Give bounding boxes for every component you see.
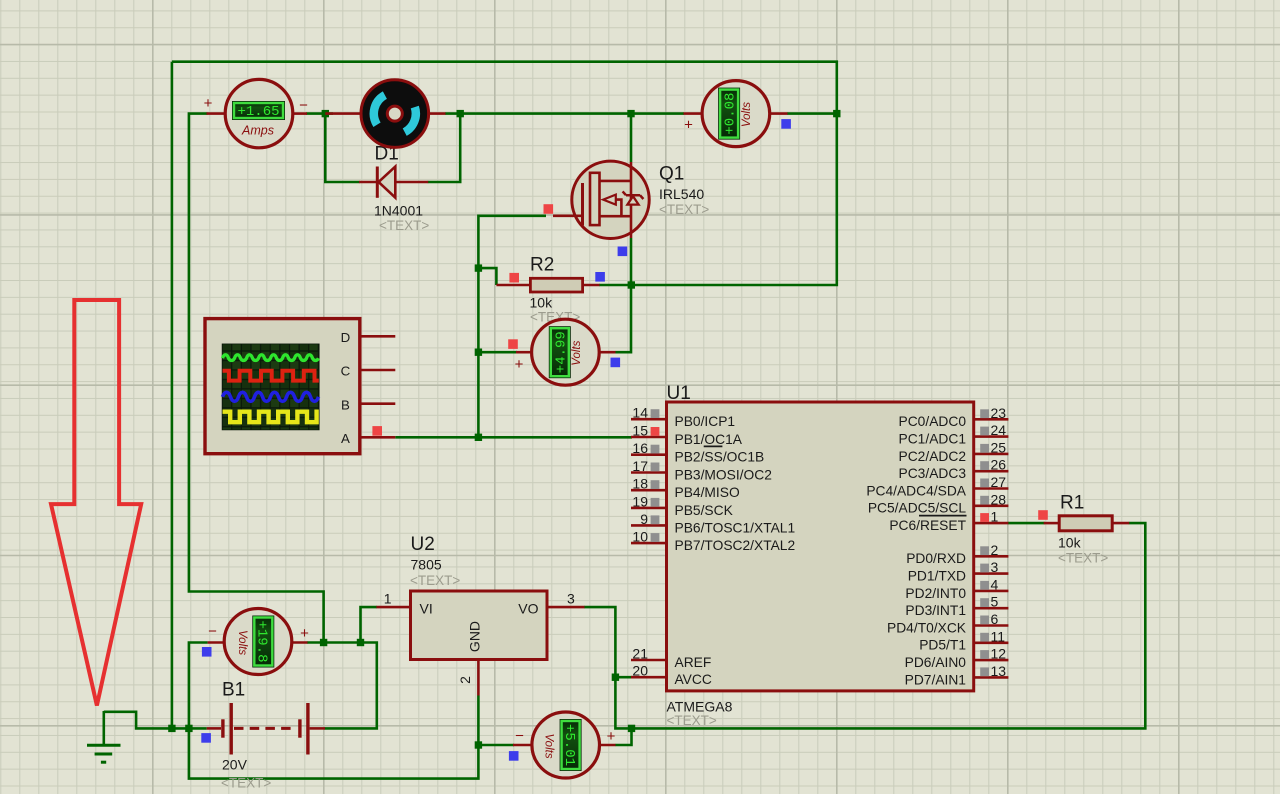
R2 left pin bbox=[496, 284, 530, 287]
U1 pin 24 state indicator bbox=[980, 427, 989, 436]
svg-text:PB4/MISO: PB4/MISO bbox=[675, 485, 740, 500]
svg-text:−: − bbox=[515, 728, 524, 745]
U1 pin 6 (PD4/T0/XCK) stub bbox=[974, 624, 1009, 627]
V5 plus pin bbox=[599, 744, 615, 747]
U1 pin 2 (PD0/RXD) stub bbox=[974, 555, 1009, 558]
svg-text:A: A bbox=[341, 431, 350, 446]
indicator Q1 gate logic state bbox=[544, 204, 554, 214]
svg-text:PB5/SCK: PB5/SCK bbox=[675, 503, 734, 518]
svg-text:+19.8: +19.8 bbox=[254, 620, 270, 662]
svg-text:+1.65: +1.65 bbox=[237, 104, 279, 120]
svg-text:R1: R1 bbox=[1060, 493, 1084, 514]
svg-text:<TEXT>: <TEXT> bbox=[221, 776, 271, 791]
wire voltmeter V5 minus stub bbox=[478, 744, 514, 747]
oscilloscope module (4 channel) bbox=[205, 319, 360, 454]
svg-text:7805: 7805 bbox=[411, 557, 442, 573]
svg-text:18: 18 bbox=[632, 476, 648, 492]
U1 pin 9 (PB6/TOSC1/XTAL1) stub bbox=[631, 524, 667, 527]
wire freewheel diode cathode branch bbox=[325, 114, 359, 182]
V2 minus pin bbox=[599, 351, 616, 354]
U1 pin 24 (PC1/ADC1) stub bbox=[974, 435, 1009, 438]
V3 minus pin bbox=[770, 112, 788, 115]
V4 minus pin bbox=[208, 641, 225, 644]
svg-text:10: 10 bbox=[632, 529, 648, 545]
U1 pin 9 state indicator bbox=[651, 515, 660, 524]
wire Q1 drain vertical upper segment bbox=[630, 114, 633, 162]
U1 pin 4 (PD2/INT0) stub bbox=[974, 590, 1009, 593]
svg-text:PD5/T1: PD5/T1 bbox=[919, 638, 966, 653]
scope channel B pin bbox=[360, 402, 396, 405]
wire U1 pin1 to R1 left bbox=[1008, 522, 1045, 525]
U2 pin 1 (VI) stub bbox=[376, 606, 410, 609]
V5 minus pin bbox=[513, 744, 532, 747]
U1 pin 18 (PB4/MISO) stub bbox=[631, 489, 667, 492]
svg-text:+: + bbox=[300, 625, 309, 642]
wire voltmeter V2 plus branch bbox=[478, 351, 517, 354]
U1 pin 15 (PB1/OC1A) stub bbox=[631, 436, 667, 439]
svg-text:5: 5 bbox=[991, 594, 999, 610]
U1 pin 13 state indicator bbox=[980, 667, 989, 676]
svg-text:10k: 10k bbox=[530, 295, 554, 311]
IC U1 ATMEGA8 body bbox=[667, 402, 974, 691]
wire ground to battery minus row bbox=[104, 712, 207, 729]
U2 pin 3 (VO) stub bbox=[547, 606, 585, 609]
wire U2 pin2 down to ground net bbox=[477, 696, 480, 746]
svg-text:+: + bbox=[684, 117, 693, 134]
U1 pin 27 state indicator bbox=[980, 479, 989, 488]
svg-text:PC4/ADC4/SDA: PC4/ADC4/SDA bbox=[866, 483, 966, 498]
svg-text:Volts: Volts bbox=[741, 102, 753, 127]
indicator scope channel A logic state bbox=[372, 426, 382, 436]
svg-text:PB6/TOSC1/XTAL1: PB6/TOSC1/XTAL1 bbox=[675, 520, 796, 535]
U1 pin 26 state indicator bbox=[980, 461, 989, 470]
svg-text:D: D bbox=[341, 330, 351, 345]
wire freewheel diode anode branch bbox=[428, 114, 461, 182]
svg-text:PC3/ADC3: PC3/ADC3 bbox=[899, 466, 967, 481]
svg-text:B1: B1 bbox=[222, 680, 245, 701]
svg-text:12: 12 bbox=[991, 646, 1007, 662]
regulator U2 7805 body bbox=[411, 591, 548, 660]
svg-text:PC1/ADC1: PC1/ADC1 bbox=[899, 432, 966, 447]
svg-text:+: + bbox=[607, 728, 616, 745]
U1 overbar over RESET of pin1 name bbox=[919, 515, 967, 517]
U1 pin 26 (PC3/ADC3) stub bbox=[974, 470, 1009, 473]
svg-text:U1: U1 bbox=[667, 383, 691, 404]
U1 pin 10 (PB7/TOSC2/XTAL2) stub bbox=[631, 542, 667, 545]
U1 pin 13 (PD7/AIN1) stub bbox=[974, 676, 1009, 679]
wire branch to R2 left bbox=[478, 268, 496, 285]
wire left vertical from top rail to battery row bbox=[171, 62, 174, 729]
U1 pin 12 (PD6/AIN0) stub bbox=[974, 659, 1009, 662]
U1 pin 5 (PD3/INT1) stub bbox=[974, 607, 1009, 610]
U1 pin 1 state indicator bbox=[980, 513, 989, 522]
indicator V2 minus logic state bbox=[611, 358, 621, 368]
U1 pin 25 state indicator bbox=[980, 444, 989, 453]
wire motor right rail to Q1 drain and voltmeter bbox=[445, 112, 684, 115]
U1 pin 16 (PB2/SS/OC1B) stub bbox=[631, 453, 667, 456]
U1 pin 1 (PC6/RESET) stub bbox=[974, 522, 1009, 525]
svg-text:IRL540: IRL540 bbox=[659, 186, 704, 202]
wire branch up to U2 VI pin 1 bbox=[361, 607, 377, 642]
svg-text:13: 13 bbox=[991, 663, 1007, 679]
svg-text:U2: U2 bbox=[411, 534, 435, 555]
U1 pin 4 state indicator bbox=[980, 581, 989, 590]
voltmeter V4 +19.8 Volts (battery) bbox=[224, 609, 292, 675]
svg-text:PD0/RXD: PD0/RXD bbox=[906, 551, 966, 566]
voltmeter V5 +5.01 Volts (5V rail) bbox=[532, 712, 600, 778]
battery B1 20V bbox=[207, 703, 325, 755]
svg-text:<TEXT>: <TEXT> bbox=[659, 202, 709, 217]
U1 pin 3 state indicator bbox=[980, 564, 989, 573]
svg-text:<TEXT>: <TEXT> bbox=[667, 713, 717, 728]
svg-text:PD1/TXD: PD1/TXD bbox=[908, 569, 966, 584]
U1 pin 17 state indicator bbox=[651, 463, 660, 472]
svg-text:PD6/AIN0: PD6/AIN0 bbox=[905, 655, 967, 670]
scope trace channel B (blue sine) bbox=[223, 392, 319, 401]
svg-text:−: − bbox=[299, 97, 308, 114]
svg-text:20V: 20V bbox=[222, 757, 248, 773]
R2 right pin bbox=[583, 284, 600, 287]
U1 pin 11 state indicator bbox=[980, 633, 989, 642]
R1 right pin bbox=[1112, 522, 1129, 525]
indicator V2 plus logic state bbox=[508, 339, 518, 349]
indicator V3 minus logic state bbox=[781, 119, 791, 129]
U1 pin 14 (PB0/ICP1) stub bbox=[631, 418, 667, 421]
svg-text:R2: R2 bbox=[530, 255, 554, 276]
svg-text:+: + bbox=[515, 356, 524, 373]
Q1 gate pin stub bbox=[553, 215, 573, 218]
U1 pin 3 (PD1/TXD) stub bbox=[974, 572, 1009, 575]
wire AVCC branch bbox=[615, 676, 633, 679]
U1 pin 16 state indicator bbox=[651, 445, 660, 454]
svg-text:10k: 10k bbox=[1058, 535, 1082, 551]
svg-text:B: B bbox=[341, 397, 350, 412]
U1 pin 21 (AREF) stub bbox=[631, 659, 667, 662]
svg-text:Volts: Volts bbox=[571, 340, 583, 365]
svg-text:28: 28 bbox=[991, 491, 1007, 507]
U1 pin 25 (PC2/ADC2) stub bbox=[974, 453, 1009, 456]
svg-text:14: 14 bbox=[632, 405, 648, 421]
svg-text:25: 25 bbox=[991, 439, 1007, 455]
U1 pin 15 state indicator bbox=[651, 427, 660, 436]
V2 plus pin bbox=[516, 351, 532, 354]
svg-text:C: C bbox=[341, 364, 351, 379]
U1 pin 23 state indicator bbox=[980, 409, 989, 418]
U1 pin 17 (PB3/MOSI/OC2) stub bbox=[631, 471, 667, 474]
transistor Q1 IRL540 N-MOSFET bbox=[572, 161, 649, 238]
scope trace channel A (yellow square) bbox=[223, 412, 319, 423]
wire 5V rail: U2 VO down and across to R1 bbox=[584, 523, 1145, 728]
svg-text:PC2/ADC2: PC2/ADC2 bbox=[899, 449, 966, 464]
U1 pin 11 (PD5/T1) stub bbox=[974, 641, 1009, 644]
ammeter plus pin bbox=[207, 112, 226, 115]
svg-text:21: 21 bbox=[632, 646, 648, 662]
U2 pin 2 (GND) stub bbox=[477, 660, 480, 696]
scope channel C pin bbox=[360, 369, 396, 372]
svg-text:1: 1 bbox=[991, 509, 999, 525]
indicator R2 left logic state bbox=[509, 273, 519, 283]
svg-text:PB0/ICP1: PB0/ICP1 bbox=[675, 414, 736, 429]
wire Q1 source vertical lower segment bbox=[630, 238, 633, 285]
svg-text:6: 6 bbox=[991, 611, 999, 627]
svg-text:23: 23 bbox=[991, 405, 1007, 421]
voltmeter V2 +4.99 Volts (gate sense) bbox=[532, 319, 600, 385]
svg-text:PD7/AIN1: PD7/AIN1 bbox=[905, 672, 966, 687]
svg-text:3: 3 bbox=[991, 559, 999, 575]
wire voltmeter V3 right to supply vertical bbox=[787, 112, 837, 115]
svg-text:GND: GND bbox=[467, 621, 483, 652]
wire PWM net: scope channel A to U1 pin15 bbox=[395, 436, 632, 439]
svg-text:+0.08: +0.08 bbox=[723, 93, 739, 135]
U1 pin 23 (PC0/ADC0) stub bbox=[974, 418, 1009, 421]
svg-text:Amps: Amps bbox=[241, 124, 274, 138]
U1 pin 6 state indicator bbox=[980, 616, 989, 625]
svg-text:26: 26 bbox=[991, 457, 1007, 473]
svg-text:PC6/RESET: PC6/RESET bbox=[889, 518, 966, 533]
svg-text:PC0/ADC0: PC0/ADC0 bbox=[899, 414, 967, 429]
svg-text:1N4001: 1N4001 bbox=[374, 203, 423, 219]
R1 left pin bbox=[1044, 522, 1060, 525]
wire voltmeter V4 minus down to battery row bbox=[189, 643, 208, 729]
indicator B1 minus logic state bbox=[201, 733, 211, 743]
svg-text:1: 1 bbox=[384, 591, 392, 607]
svg-text:Volts: Volts bbox=[236, 630, 248, 655]
svg-text:17: 17 bbox=[632, 458, 648, 474]
svg-text:VO: VO bbox=[518, 601, 538, 617]
scope channel A pin bbox=[360, 436, 396, 439]
svg-text:PC5/ADC5/SCL: PC5/ADC5/SCL bbox=[868, 501, 966, 516]
svg-text:3: 3 bbox=[567, 591, 575, 607]
svg-text:Q1: Q1 bbox=[659, 164, 684, 185]
indicator V4 minus logic state bbox=[202, 647, 212, 657]
wire voltmeter V2 minus to Q1 source node bbox=[615, 286, 631, 352]
svg-text:<TEXT>: <TEXT> bbox=[379, 218, 429, 233]
svg-text:PB3/MOSI/OC2: PB3/MOSI/OC2 bbox=[675, 467, 772, 482]
U1 pin 28 state indicator bbox=[980, 496, 989, 505]
U1 overbar over SS of pin16 name bbox=[704, 445, 723, 447]
indicator V5 minus logic state bbox=[509, 751, 519, 761]
U1 pin 28 (PC5/ADC5/SCL) stub bbox=[974, 504, 1009, 507]
wire bottom return loop to U2 ground bbox=[189, 728, 479, 778]
U1 pin 20 (AVCC) stub bbox=[631, 676, 667, 679]
diode D1 1N4001 (pointing left) bbox=[359, 167, 428, 198]
svg-text:PD3/INT1: PD3/INT1 bbox=[905, 603, 966, 618]
svg-text:16: 16 bbox=[632, 440, 648, 456]
svg-text:VI: VI bbox=[420, 601, 433, 617]
motor right pin bbox=[428, 112, 445, 115]
wire top supply rail with right vertical down to R2 row bbox=[172, 62, 837, 285]
indicator R1 left logic state bbox=[1038, 510, 1048, 520]
svg-text:15: 15 bbox=[632, 423, 648, 439]
voltmeter V3 +0.08 Volts (across motor branch) bbox=[702, 81, 770, 147]
U1 pin 14 state indicator bbox=[651, 409, 660, 418]
svg-text:4: 4 bbox=[991, 576, 999, 592]
svg-text:+4.99: +4.99 bbox=[553, 331, 569, 373]
svg-text:<TEXT>: <TEXT> bbox=[1058, 551, 1108, 566]
svg-text:PB2/SS/OC1B: PB2/SS/OC1B bbox=[675, 450, 765, 465]
svg-text:11: 11 bbox=[991, 628, 1006, 644]
svg-text:−: − bbox=[208, 623, 217, 640]
U1 pin 27 (PC4/ADC4/SDA) stub bbox=[974, 487, 1009, 490]
svg-text:Volts: Volts bbox=[543, 733, 555, 758]
U1 pin 19 (PB5/SCK) stub bbox=[631, 507, 667, 510]
red arrow annotation (points down) bbox=[51, 300, 141, 706]
ammeter AM1 +1.65 Amps bbox=[225, 79, 293, 147]
resistor R1 10k bbox=[1059, 516, 1112, 531]
svg-text:PD4/T0/XCK: PD4/T0/XCK bbox=[887, 620, 967, 635]
U1 pin 12 state indicator bbox=[980, 650, 989, 659]
svg-text:2: 2 bbox=[991, 542, 999, 558]
wire branch down to battery right terminal bbox=[325, 643, 377, 729]
wire gate net vertical from Q1 gate to PWM row bbox=[478, 216, 546, 437]
motor left pin bbox=[325, 112, 361, 115]
ground symbol bbox=[87, 711, 121, 762]
scope trace channel D (green sine) bbox=[223, 355, 319, 361]
wire voltmeter V5 plus up to 5V rail bbox=[615, 728, 631, 745]
indicator Q1 source logic state bbox=[618, 247, 628, 257]
U1 pin 10 state indicator bbox=[651, 533, 660, 542]
V4 plus pin bbox=[291, 641, 308, 644]
svg-text:+5.01: +5.01 bbox=[561, 724, 577, 766]
svg-text:24: 24 bbox=[991, 422, 1007, 438]
svg-text:PB1/OC1A: PB1/OC1A bbox=[675, 432, 743, 447]
scope trace channel C (red square) bbox=[223, 371, 319, 381]
wire battery plus row to U2 input bbox=[307, 641, 361, 644]
svg-text:20: 20 bbox=[632, 663, 648, 679]
svg-text:PB7/TOSC2/XTAL2: PB7/TOSC2/XTAL2 bbox=[675, 538, 796, 553]
junction dots (wire nodes) bbox=[168, 110, 840, 749]
svg-text:19: 19 bbox=[632, 493, 648, 509]
ammeter minus pin bbox=[293, 112, 307, 115]
wire ammeter minus to motor left bbox=[306, 112, 333, 115]
U1 pin 5 state indicator bbox=[980, 598, 989, 607]
svg-text:PD2/INT0: PD2/INT0 bbox=[905, 586, 966, 601]
scope channel D pin bbox=[360, 335, 396, 338]
svg-text:+: + bbox=[204, 95, 213, 112]
U1 pin 18 state indicator bbox=[651, 480, 660, 489]
U1 pin 19 state indicator bbox=[651, 498, 660, 507]
svg-text:9: 9 bbox=[640, 511, 648, 527]
indicator R2 right logic state bbox=[595, 272, 605, 282]
svg-text:<TEXT>: <TEXT> bbox=[410, 573, 460, 588]
svg-text:27: 27 bbox=[991, 474, 1007, 490]
U1 pin 2 state indicator bbox=[980, 546, 989, 555]
V3 plus pin bbox=[684, 112, 703, 115]
wire ammeter plus branch down to voltmeter plus row bbox=[189, 114, 324, 643]
svg-text:AVCC: AVCC bbox=[675, 672, 712, 687]
svg-text:2: 2 bbox=[457, 676, 473, 684]
svg-text:AREF: AREF bbox=[675, 655, 712, 670]
resistor R2 10k bbox=[530, 278, 582, 292]
